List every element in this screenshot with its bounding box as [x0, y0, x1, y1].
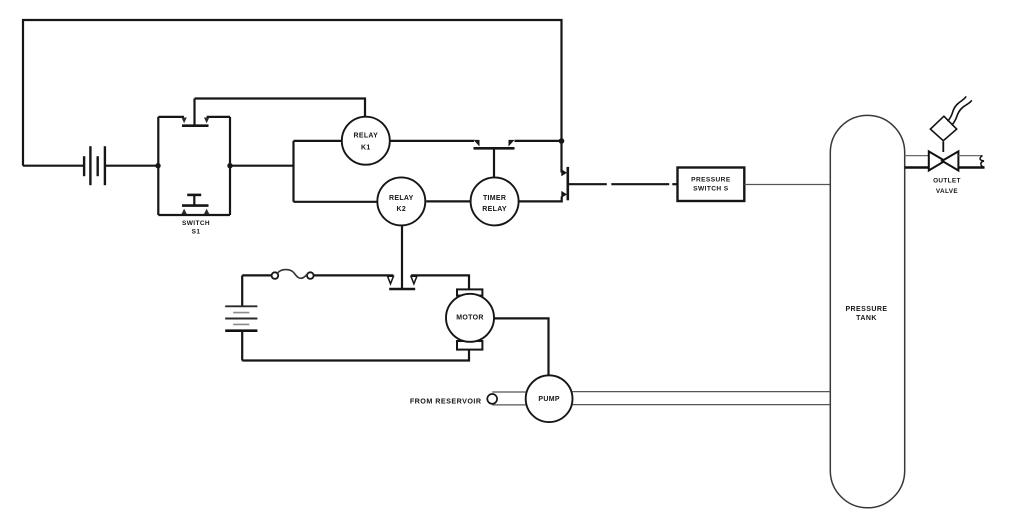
svg-text:SWITCH: SWITCH: [182, 220, 210, 227]
pipe inlet end cap: [487, 394, 497, 404]
wire battery B1 left lead: [23, 165, 84, 167]
svg-text:K2: K2: [397, 206, 407, 213]
svg-text:RELAY: RELAY: [389, 195, 414, 202]
battery B2 bottom lead: [241, 331, 243, 361]
transfer contact lower arrow: [561, 191, 567, 198]
wire relay K2 to timer relay: [426, 200, 470, 202]
relay K2: [377, 177, 425, 225]
motor M1: [446, 289, 494, 349]
svg-text:PRESSURE: PRESSURE: [691, 176, 731, 183]
svg-text:RELAY: RELAY: [482, 206, 507, 213]
wire battery B1 right lead: [105, 165, 158, 167]
wire motor bottom to rail: [242, 350, 469, 361]
wire switch output: [230, 165, 294, 167]
pipe outlet valve discharge: [958, 156, 984, 168]
pipe tank to outlet valve: [905, 156, 929, 168]
svg-text:OUTLET: OUTLET: [933, 178, 961, 185]
transfer contact bar: [566, 167, 569, 200]
svg-text:MOTOR: MOTOR: [456, 315, 483, 322]
wire timer relay to lower arrow: [519, 197, 562, 202]
wire fuse to motor contact: [314, 274, 394, 276]
outlet valve actuator diamond: [930, 116, 956, 141]
wire relay K1 to contact: [390, 140, 474, 142]
svg-text:TANK: TANK: [856, 315, 877, 322]
transfer contact upper arrow: [561, 169, 567, 176]
battery B2: [225, 306, 257, 330]
pipe reservoir inlet: [492, 392, 526, 405]
svg-text:TIMER: TIMER: [483, 195, 506, 202]
wire contact to main node: [515, 140, 562, 142]
pump P1: [526, 375, 573, 422]
label outlet valve: [933, 178, 961, 195]
svg-text:VALVE: VALVE: [936, 188, 958, 195]
wire motor circuit top rail: [242, 274, 271, 276]
pipe pump to tank: [573, 392, 831, 405]
wire branch to relay K2: [294, 201, 378, 203]
pressure switch S: [678, 168, 745, 202]
node switch input junction: [155, 163, 160, 168]
wire rail to relay K1 coil: [195, 99, 366, 118]
outlet valve hose: [948, 96, 972, 125]
wire pressure switch to tank: [744, 184, 830, 186]
svg-text:FROM RESERVOIR: FROM RESERVOIR: [410, 397, 482, 406]
wire top rail: [23, 20, 562, 173]
wire to relay K1: [294, 140, 342, 142]
label SWITCH S1: [182, 220, 210, 236]
wire motor to pump: [494, 318, 548, 375]
fuse F1: [272, 270, 314, 279]
switch S1 frame: [158, 117, 230, 215]
wire relay K2 to motor contact: [401, 225, 403, 288]
svg-text:RELAY: RELAY: [354, 132, 379, 139]
outlet valve: [929, 151, 959, 170]
timer relay U2: [471, 177, 519, 225]
wire contact output to pressure switch: [569, 183, 678, 185]
pressure tank: [830, 115, 904, 507]
node switch output junction: [227, 163, 232, 168]
battery B2 top lead: [241, 275, 243, 306]
svg-text:SWITCH S: SWITCH S: [693, 186, 729, 193]
svg-text:K1: K1: [361, 144, 371, 151]
switch S1 NC contact: [182, 99, 210, 126]
battery B1: [84, 146, 105, 185]
motor contact K2: [388, 276, 417, 289]
outlet valve stem: [942, 142, 944, 153]
node main rail junction: [559, 138, 565, 144]
svg-text:PRESSURE: PRESSURE: [845, 306, 887, 313]
svg-text:S1: S1: [192, 229, 201, 236]
svg-text:PUMP: PUMP: [538, 396, 559, 403]
relay K1: [342, 117, 390, 165]
timer relay contact K1: [474, 140, 515, 178]
switch S1 pushbutton: [182, 195, 210, 214]
wire contact to motor: [411, 275, 469, 289]
wire branch tee: [292, 141, 294, 202]
